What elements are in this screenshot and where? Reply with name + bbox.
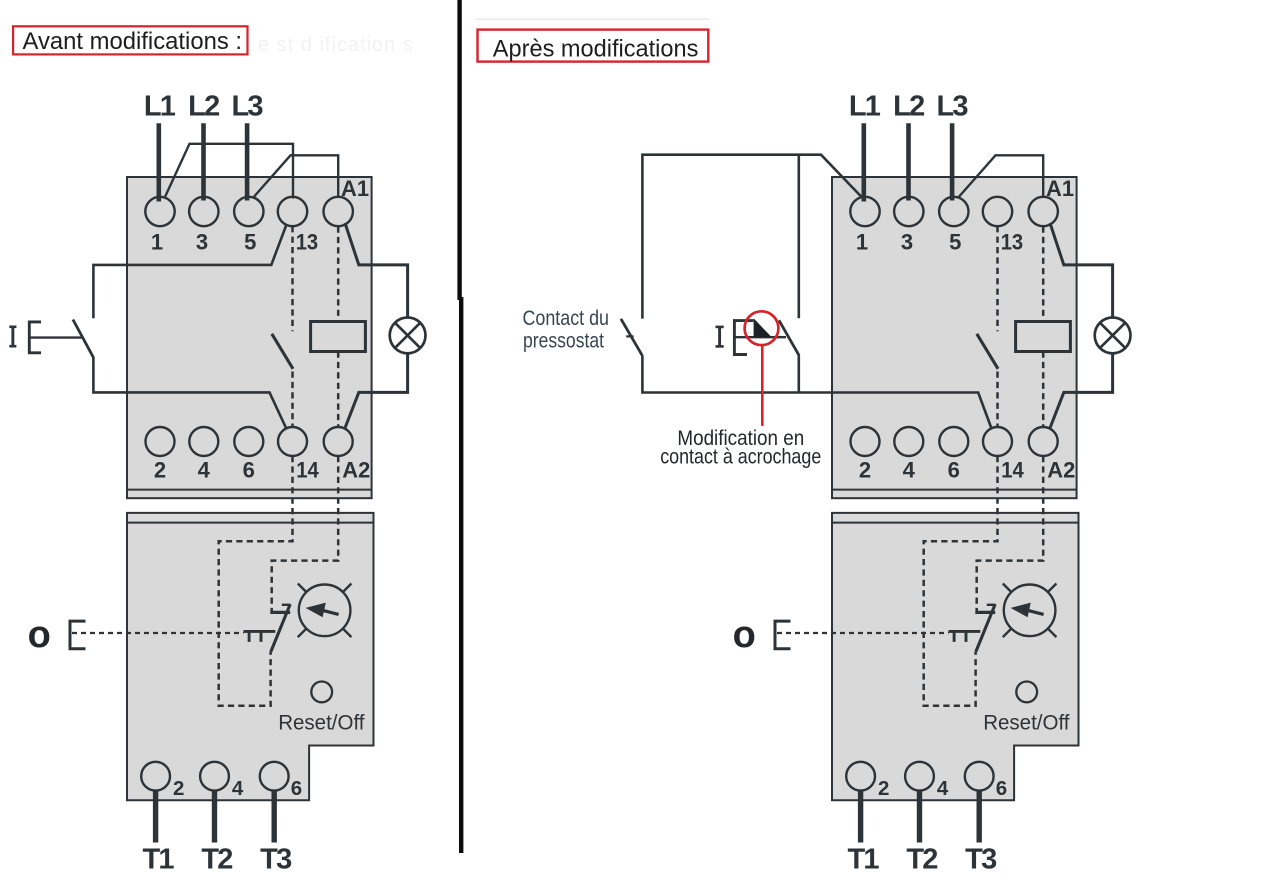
svg-text:6: 6 <box>996 777 1007 800</box>
svg-text:4: 4 <box>937 777 949 800</box>
label I start (left) <box>9 325 16 328</box>
reset button (left) <box>311 682 332 703</box>
wire terminal 5 to A1 (left) <box>253 155 338 198</box>
start button blade (left) <box>73 320 94 358</box>
wire 13 to button upper (left) <box>93 225 286 319</box>
svg-text:o: o <box>733 614 756 656</box>
svg-text:T2: T2 <box>906 844 937 876</box>
trip contact blade (right) <box>976 604 995 652</box>
wire lamp to A2 (left) <box>345 353 408 428</box>
dashed link 14 to relay (right) <box>924 456 998 706</box>
terminal 3 (right) <box>894 197 923 226</box>
wire L2 feed (left) <box>201 123 206 200</box>
contactor bottom inner edge (left) <box>127 489 372 491</box>
wire T2 (left) <box>212 791 217 843</box>
svg-text:o: o <box>28 614 51 656</box>
relay top inner edge (right) <box>832 522 1079 524</box>
svg-text:2: 2 <box>878 777 889 800</box>
svg-text:13: 13 <box>296 230 319 255</box>
relay terminal 2 (left) <box>141 762 170 791</box>
terminal 4 (right) <box>894 427 923 456</box>
terminal 1 (right) <box>850 197 879 226</box>
thermal relay body (right) <box>832 513 1079 800</box>
relay terminal 6 (right) <box>965 762 994 791</box>
red pointer line (right) <box>761 345 764 426</box>
label I latch (right) <box>716 326 724 329</box>
relay terminal 4 (left) <box>200 762 229 791</box>
wire T3 (right) <box>977 791 982 843</box>
coil KM1 (right) <box>1016 322 1071 352</box>
wire L1 feed (right) <box>861 123 866 201</box>
svg-text:T3: T3 <box>965 844 997 876</box>
svg-text:L2: L2 <box>893 91 924 123</box>
aux contact blade 13-14 (left) <box>272 334 293 369</box>
svg-text:1: 1 <box>151 230 163 255</box>
wire latch branch lower (right) <box>797 355 800 392</box>
latch button bracket (right) <box>734 321 753 355</box>
terminal 2 (right) <box>851 427 880 456</box>
svg-text:pressostat: pressostat <box>523 329 604 352</box>
reset button (right) <box>1016 682 1037 703</box>
dashed link A2 to relay (right) <box>977 456 1043 611</box>
dial arrow (left) <box>306 603 326 618</box>
wire latch branch upper (right) <box>797 154 800 319</box>
relay terminal 4 (right) <box>905 762 934 791</box>
dial stub SE (left) <box>343 629 352 638</box>
relay terminal 6 (left) <box>260 762 289 791</box>
trip contact fixed bar (left) <box>270 611 290 614</box>
dashed link 13 upper (right) <box>996 226 999 331</box>
dashed link A1 (right) <box>1042 227 1045 322</box>
lamp cross stroke 1 (right) <box>1100 323 1125 348</box>
dial stub NE (right) <box>1048 584 1057 593</box>
terminal 2 (left) <box>146 427 175 456</box>
svg-text:2: 2 <box>173 777 184 800</box>
svg-text:L3: L3 <box>936 91 968 123</box>
svg-text:1: 1 <box>856 230 868 255</box>
wire L3 feed (left) <box>245 123 250 200</box>
O button bracket (left) <box>70 621 86 649</box>
latch contact blade (right) <box>779 320 799 355</box>
terminal 1 (left) <box>145 197 174 226</box>
terminal 13 (right) <box>983 197 1012 226</box>
svg-text:4: 4 <box>232 777 244 800</box>
wire A1 to lamp (left) <box>345 223 408 318</box>
svg-text:T1: T1 <box>847 844 879 876</box>
wire T3 (left) <box>272 791 277 843</box>
svg-text:6: 6 <box>243 457 255 482</box>
lamp cross stroke 1 (left) <box>395 323 420 348</box>
latch comb leg 1 (left) <box>248 631 251 642</box>
terminal 5 (right) <box>939 197 968 226</box>
start button bracket (left) <box>29 322 41 353</box>
O button bracket (right) <box>775 621 791 649</box>
svg-text:T1: T1 <box>142 844 174 876</box>
coil KM1 (left) <box>311 322 366 352</box>
wire terminal 1 to 13 (left) <box>165 144 293 199</box>
svg-text:5: 5 <box>244 230 256 255</box>
relay terminal 2 (right) <box>846 762 875 791</box>
terminal 3 (left) <box>189 197 218 226</box>
latch comb leg 2 (right) <box>965 631 968 642</box>
svg-text:14: 14 <box>296 457 319 482</box>
svg-text:Reset/Off: Reset/Off <box>983 711 1069 735</box>
terminal 14 (right) <box>983 427 1012 456</box>
svg-text:6: 6 <box>291 777 302 800</box>
contactor KM1 body (right) <box>832 177 1077 498</box>
terminal 14 (left) <box>278 427 307 456</box>
dial arrow (right) <box>1011 603 1031 618</box>
contactor KM1 body (left) <box>127 177 372 498</box>
svg-text:3: 3 <box>901 230 913 255</box>
svg-text:A1: A1 <box>1046 176 1074 201</box>
O button dashed actuator (right) <box>777 632 949 634</box>
svg-text:e st d ification s: e st d ification s <box>258 34 414 56</box>
trip contact blade (left) <box>271 604 290 652</box>
red highlight circle (right) <box>745 311 779 345</box>
svg-text:T3: T3 <box>260 844 292 876</box>
dial circle (left) <box>299 585 351 637</box>
svg-text:A1: A1 <box>341 176 369 201</box>
dial stub NW (left) <box>298 584 307 593</box>
dashed link 14 upper (left) <box>291 372 294 427</box>
latch comb bar (right) <box>949 630 981 633</box>
dial circle (right) <box>1004 585 1056 637</box>
trip contact fixed bar (right) <box>975 611 995 614</box>
dial stub SW (right) <box>1003 629 1012 638</box>
wire T2 (right) <box>917 791 922 843</box>
dashed link A1 (left) <box>337 227 340 322</box>
svg-text:4: 4 <box>903 457 916 482</box>
svg-text:2: 2 <box>154 457 166 482</box>
svg-text:14: 14 <box>1001 457 1024 482</box>
wire T1 (left) <box>153 791 158 843</box>
terminal A1 (left) <box>324 197 353 226</box>
wire L2 feed (right) <box>906 123 911 200</box>
svg-text:L1: L1 <box>144 91 176 123</box>
latch comb leg 2 (left) <box>260 631 263 642</box>
wire terminal 1 to loop (right) <box>642 155 861 319</box>
start button actuator (left) <box>29 336 81 338</box>
lamp cross stroke 2 (left) <box>395 323 420 348</box>
dial stub NE (left) <box>343 584 352 593</box>
dashed link A2 to relay (left) <box>272 456 339 611</box>
terminal 6 (right) <box>939 427 968 456</box>
pressostat contact blade (right) <box>621 319 642 356</box>
latch comb leg 1 (right) <box>953 631 956 642</box>
terminal A1 (right) <box>1029 197 1058 226</box>
svg-text:5: 5 <box>949 230 961 255</box>
wire L3 feed (right) <box>950 123 955 200</box>
contactor bottom inner edge (right) <box>832 489 1077 491</box>
terminal A2 (left) <box>324 427 353 456</box>
terminal 13 (left) <box>278 197 307 226</box>
latch comb bar (left) <box>244 630 276 633</box>
latch hook triangle (right) <box>754 318 772 337</box>
svg-text:T2: T2 <box>201 844 232 876</box>
lamp H1 (right) <box>1095 318 1131 354</box>
wire L1 feed (left) <box>157 123 162 201</box>
relay top inner edge (left) <box>127 522 374 524</box>
dial stub SW (left) <box>298 629 307 638</box>
svg-text:L3: L3 <box>231 91 263 123</box>
wire terminal 5 to A1 (right) <box>958 155 1043 198</box>
dashed link A2 (right) <box>1042 352 1045 427</box>
svg-text:Reset/Off: Reset/Off <box>278 711 364 735</box>
terminal 5 (left) <box>234 197 263 226</box>
svg-text:2: 2 <box>859 457 871 482</box>
wire button to 14 (left) <box>93 358 286 429</box>
lamp H1 (left) <box>390 318 426 354</box>
terminal 6 (left) <box>234 427 263 456</box>
terminal 4 (left) <box>189 427 218 456</box>
svg-text:4: 4 <box>198 457 211 482</box>
terminal A2 (right) <box>1029 427 1058 456</box>
divider line <box>457 0 461 300</box>
latch button actuator (right) <box>734 336 786 338</box>
dashed link 13 upper (left) <box>291 226 294 331</box>
svg-text:13: 13 <box>1001 230 1024 255</box>
svg-text:contact à acrochage: contact à acrochage <box>660 444 821 468</box>
trip contact tick (right) <box>987 604 996 606</box>
svg-text:L2: L2 <box>188 91 219 123</box>
title box avant <box>13 26 247 54</box>
wire T1 (right) <box>858 791 863 843</box>
svg-text:A2: A2 <box>1047 457 1075 482</box>
svg-text:3: 3 <box>196 230 208 255</box>
dial stub SE (right) <box>1048 629 1057 638</box>
svg-text:Avant modifications :: Avant modifications : <box>23 28 243 55</box>
wire pressostat to 14 (right) <box>642 355 991 428</box>
svg-text:A2: A2 <box>342 457 370 482</box>
dashed link 14 upper (right) <box>996 372 999 427</box>
title box apres <box>478 30 709 62</box>
svg-text:Après modifications: Après modifications <box>493 36 699 63</box>
svg-text:Contact du: Contact du <box>523 307 610 330</box>
pressostat contact tick (right) <box>626 335 633 337</box>
dial stub NW (right) <box>1003 584 1012 593</box>
O button dashed actuator (left) <box>72 632 244 634</box>
svg-text:L1: L1 <box>849 91 881 123</box>
wire lamp to A2 (right) <box>1050 353 1113 428</box>
dashed link 14 to relay (left) <box>219 456 293 706</box>
trip contact tick (left) <box>282 604 291 606</box>
aux contact blade 13-14 (right) <box>977 334 998 369</box>
lamp cross stroke 2 (right) <box>1100 323 1125 348</box>
svg-text:6: 6 <box>948 457 960 482</box>
thermal relay body (left) <box>127 513 374 800</box>
wire A1 to lamp (right) <box>1050 223 1113 318</box>
scan artifact faint line <box>476 18 709 20</box>
dashed link A2 (left) <box>337 352 340 427</box>
